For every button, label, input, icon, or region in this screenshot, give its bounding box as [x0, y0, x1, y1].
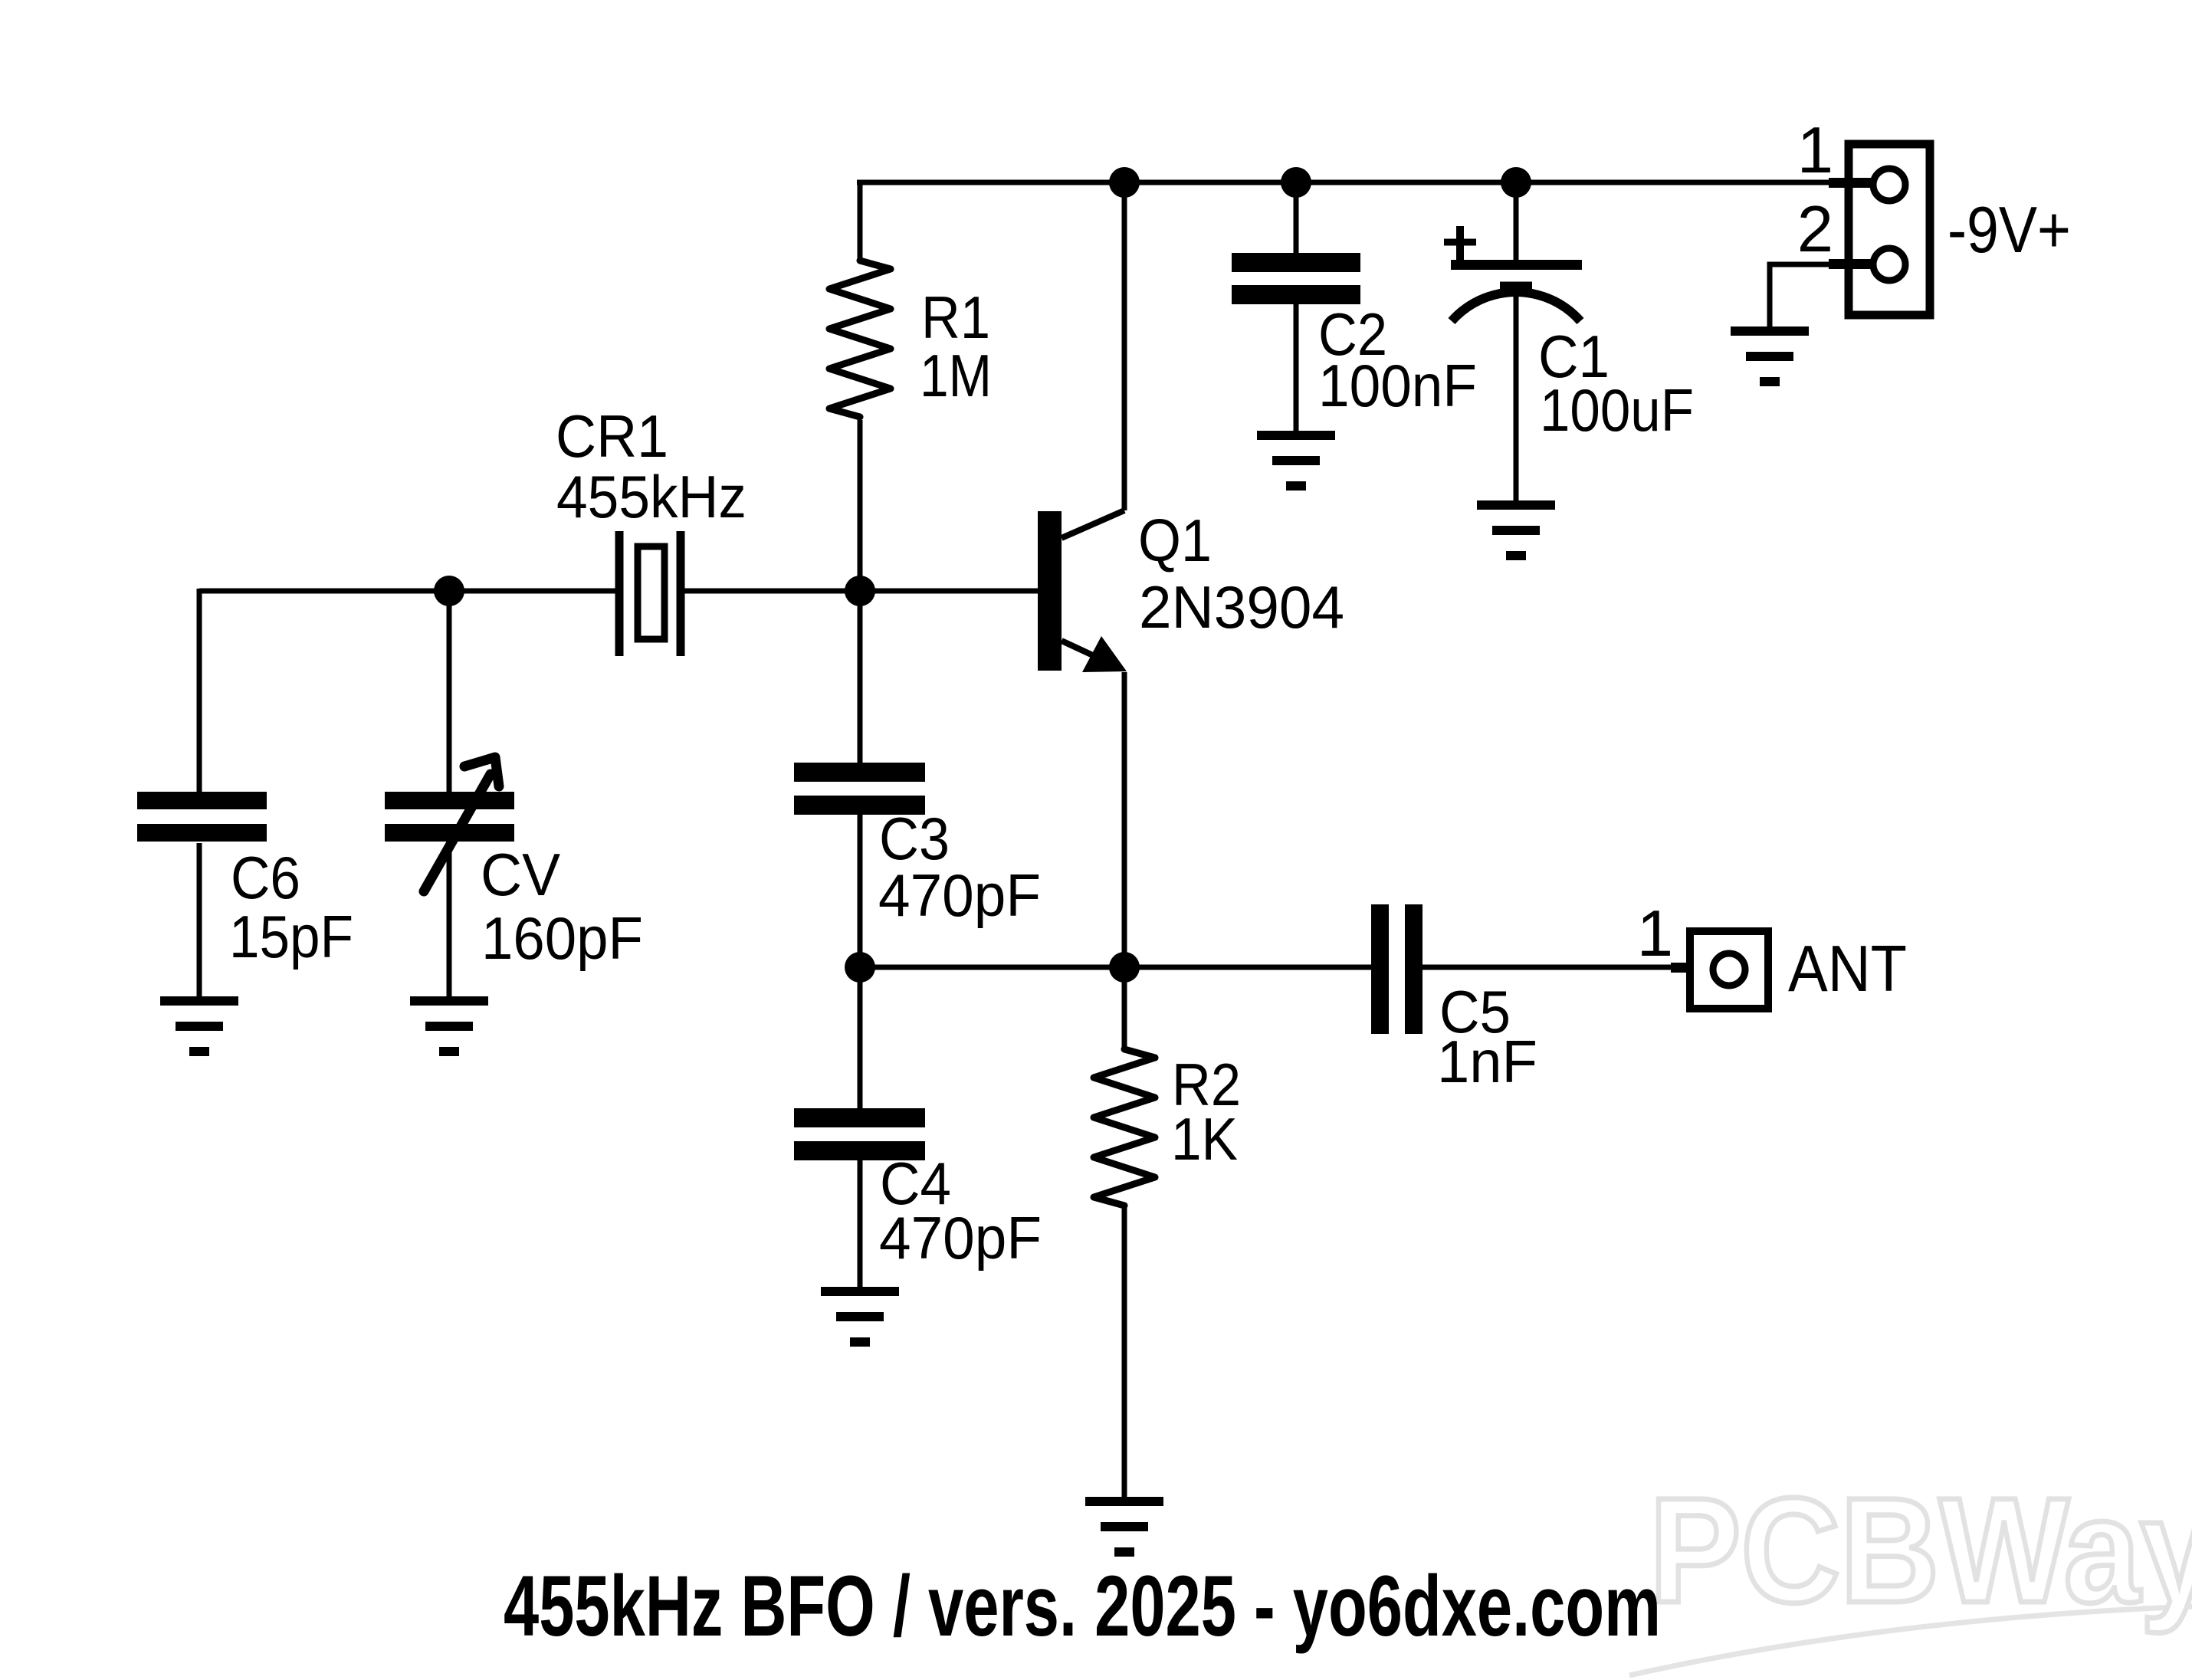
svg-text:1M: 1M — [920, 342, 992, 409]
label C6 15pF — [229, 844, 353, 970]
ground C6 — [160, 1001, 238, 1052]
svg-text:470pF: 470pF — [878, 861, 1041, 929]
label R2 1K — [1171, 1051, 1241, 1173]
capacitor C3 — [794, 763, 925, 815]
svg-text:15pF: 15pF — [229, 903, 353, 970]
svg-text:455kHz BFO / vers. 2025 - yo6d: 455kHz BFO / vers. 2025 - yo6dxe.com — [504, 1558, 1661, 1654]
svg-text:CR1: CR1 — [556, 402, 668, 470]
capacitor C1 (electrolytic) — [1444, 226, 1582, 321]
svg-text:160pF: 160pF — [481, 904, 643, 972]
capacitor C6 — [137, 792, 267, 842]
wire crystal to base junction and Q1 base — [684, 589, 1038, 594]
wire R2 top — [1122, 967, 1127, 1049]
wire R2 bottom to ground — [1122, 1207, 1127, 1497]
svg-text:1nF: 1nF — [1437, 1028, 1537, 1095]
wire CV column upper — [447, 591, 452, 792]
svg-text:455kHz: 455kHz — [556, 463, 747, 530]
svg-text:470pF: 470pF — [879, 1204, 1042, 1271]
wire base row left (C6 corner to crystal) — [199, 589, 615, 594]
ground J1 pin2 — [1731, 331, 1809, 382]
ground R2 — [1085, 1501, 1163, 1552]
label C5 1nF — [1437, 978, 1537, 1095]
label R1 1M — [920, 284, 992, 409]
wire Q1 collector — [1122, 182, 1127, 510]
label Q1 2N3904 — [1138, 507, 1344, 641]
svg-text:PCBWay: PCBWay — [1649, 1467, 2192, 1634]
ground C2 — [1257, 435, 1335, 486]
wire C1 bottom to ground — [1514, 294, 1519, 500]
label C3 470pF — [878, 805, 1041, 929]
wire connector pin2 to ground — [1770, 264, 1829, 326]
svg-text:Q1: Q1 — [1138, 507, 1212, 574]
resistor R2 — [1094, 1049, 1155, 1206]
wire C2 bottom to ground — [1294, 304, 1299, 431]
wire emitter row to C5 — [860, 965, 1371, 970]
svg-text:R1: R1 — [921, 284, 990, 351]
wire C2 top — [1294, 182, 1299, 253]
watermark swoosh — [1629, 1606, 2192, 1675]
wire C4 bottom to ground — [858, 1160, 863, 1287]
label C1 100uF — [1538, 323, 1694, 444]
transistor Q1 — [1038, 510, 1127, 672]
svg-text:1: 1 — [1637, 897, 1673, 970]
wire C6 column lower — [197, 843, 202, 996]
label C4 470pF — [879, 1150, 1042, 1271]
ground C1 — [1477, 505, 1555, 556]
ground CV — [410, 1001, 488, 1052]
resistor R1 — [829, 261, 891, 417]
wire C5 to ANT — [1423, 965, 1675, 970]
connector J2 ANT — [1671, 931, 1768, 1009]
wire C6 column upper — [197, 589, 202, 792]
wire CV column lower — [447, 842, 452, 996]
label CR1 455kHz — [556, 402, 747, 530]
svg-text:100nF: 100nF — [1318, 352, 1477, 419]
svg-text:100uF: 100uF — [1540, 376, 1694, 444]
junction node emitter/R2/C5 — [1109, 952, 1140, 983]
svg-text:CV: CV — [481, 841, 560, 908]
connector J1 (-9V+) — [1829, 144, 1930, 315]
crystal CR1 — [619, 531, 681, 656]
ground C4 — [821, 1291, 899, 1342]
wire Q1 emitter — [1122, 672, 1127, 967]
junction node CV tap — [434, 576, 464, 606]
wire R1 top — [857, 182, 860, 262]
wire C3 bottom — [858, 815, 863, 967]
capacitor C5 — [1371, 904, 1423, 1034]
junction node Q1 base — [845, 576, 875, 606]
junction node C2/top rail — [1281, 167, 1311, 198]
svg-text:1K: 1K — [1171, 1105, 1238, 1173]
junction node C1/top rail — [1501, 167, 1531, 198]
svg-text:2: 2 — [1797, 193, 1833, 266]
capacitor C4 — [794, 1108, 925, 1160]
junction node collector/top rail — [1109, 167, 1140, 198]
label C2 100nF — [1318, 300, 1477, 419]
svg-text:ANT: ANT — [1788, 933, 1907, 1006]
svg-text:-9V+: -9V+ — [1948, 194, 2071, 267]
variable capacitor CV — [385, 757, 514, 891]
wire C3 top — [858, 591, 863, 763]
svg-text:C6: C6 — [231, 844, 300, 911]
svg-text:2N3904: 2N3904 — [1139, 573, 1344, 641]
wire C4 top — [858, 967, 863, 1108]
label CV 160pF — [481, 841, 643, 972]
wire top power rail — [860, 180, 1870, 185]
wire C1 top — [1514, 182, 1519, 260]
junction node C3/C4 — [845, 952, 875, 983]
wire R1 bottom to base node — [858, 420, 863, 591]
svg-text:1: 1 — [1797, 114, 1833, 187]
capacitor C2 — [1232, 253, 1360, 304]
